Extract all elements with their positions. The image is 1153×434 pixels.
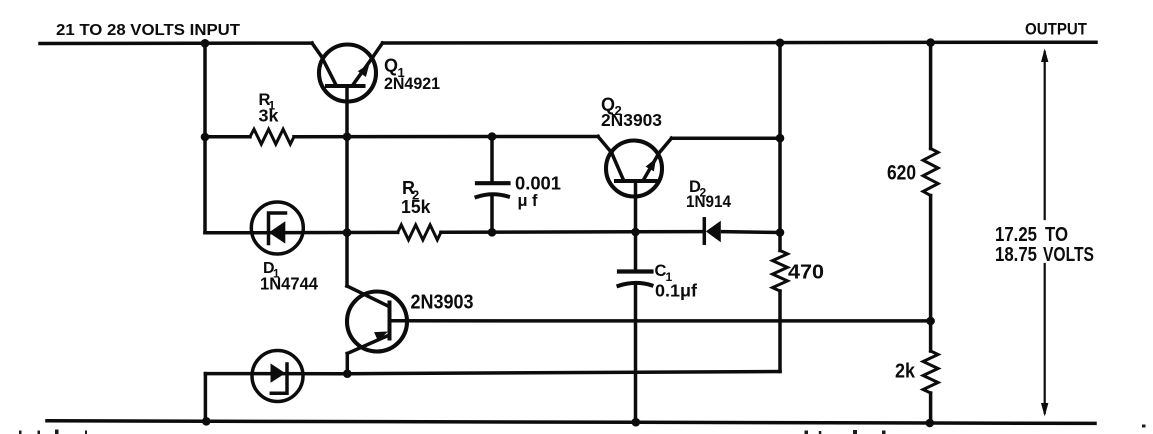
wire bottom rail <box>47 421 1095 424</box>
svg-text:3k: 3k <box>259 106 279 126</box>
diode D2 1N914 <box>704 219 721 243</box>
wire right divider rail middle <box>929 196 933 352</box>
node input/R1 junction <box>201 39 210 48</box>
svg-text:2N3903: 2N3903 <box>411 292 474 314</box>
svg-text:21 TO 28 VOLTS INPUT: 21 TO 28 VOLTS INPUT <box>56 22 240 39</box>
wire R2 to D2 <box>441 230 703 234</box>
node Q2 base <box>631 228 640 237</box>
node bottom rail left <box>202 417 211 426</box>
resistor 620 <box>923 149 938 196</box>
measure arrow <box>1041 49 1048 417</box>
wire D2 to 470 rail <box>723 230 781 234</box>
scan noise right edge <box>1142 425 1146 428</box>
scan noise bottom left <box>19 431 22 434</box>
node top rail divider <box>926 38 935 47</box>
svg-text:2k: 2k <box>895 361 916 383</box>
scan noise bottom center <box>805 431 809 434</box>
node top rail 470 <box>776 39 785 48</box>
node R1 right <box>343 132 352 141</box>
svg-text:1N4744: 1N4744 <box>260 274 318 294</box>
svg-text:2N4921: 2N4921 <box>384 75 440 93</box>
node cap top <box>488 132 497 141</box>
wire R1 to cap junction <box>294 135 598 139</box>
svg-text:620: 620 <box>887 162 916 185</box>
transistor Q3 2N3903 <box>347 286 407 374</box>
transistor Q2 <box>598 137 672 197</box>
wire 470 rail upper <box>778 43 782 251</box>
resistor R1 <box>250 129 294 144</box>
wire Q3 base row <box>390 319 931 323</box>
svg-text:2N3903: 2N3903 <box>601 110 662 130</box>
svg-text:18.75: 18.75 <box>995 244 1037 266</box>
node bottom rail divider <box>926 419 935 428</box>
wire Q1 base column <box>345 86 349 286</box>
wire C1 column upper <box>634 181 638 271</box>
wire zener row bottom <box>205 372 780 374</box>
node emitter junction <box>343 369 352 378</box>
svg-text:1N914: 1N914 <box>686 192 731 211</box>
svg-text:Q: Q <box>384 56 398 76</box>
node base row divider <box>926 317 935 326</box>
wire bottom left leg <box>204 374 208 422</box>
svg-text:μ f: μ f <box>518 191 538 210</box>
wire left input rail <box>203 43 207 233</box>
wire D1 row left <box>205 231 398 235</box>
svg-text:17.25: 17.25 <box>995 224 1037 246</box>
svg-text:15k: 15k <box>401 197 431 217</box>
node Q2 emitter rail <box>776 134 785 143</box>
wire right divider rail upper <box>929 43 933 149</box>
svg-text:OUTPUT: OUTPUT <box>1025 21 1087 39</box>
zener D1 <box>251 202 303 254</box>
node bottom rail C1 <box>632 418 641 427</box>
capacitor C1 <box>619 272 652 286</box>
node D2 right <box>776 228 785 237</box>
svg-text:470: 470 <box>788 262 824 284</box>
svg-text:VOLTS: VOLTS <box>1043 244 1094 266</box>
node D1 right <box>343 228 352 237</box>
resistor 470 <box>773 251 788 292</box>
capacitor 0.001uf <box>477 183 509 197</box>
wire cap 0.001 column upper <box>490 137 494 183</box>
wire cap 0.001 column lower <box>490 197 494 232</box>
resistor R2 <box>398 225 441 240</box>
wire top rail left <box>40 41 312 45</box>
wire 470 rail lower <box>778 291 782 372</box>
svg-text:TO: TO <box>1045 224 1068 246</box>
wire R1 row <box>205 135 250 139</box>
zener D3 bottom <box>252 351 303 402</box>
wire top rail right <box>383 40 1097 44</box>
wire Q2 emitter row <box>672 136 781 140</box>
resistor 2k <box>923 351 938 393</box>
node R1 left <box>201 133 210 142</box>
node cap bottom <box>488 228 497 237</box>
wire C1 column lower <box>634 285 638 422</box>
transistor Q1 <box>312 43 383 102</box>
svg-text:0.1μf: 0.1μf <box>655 281 697 301</box>
wire right divider rail lower <box>929 393 933 423</box>
